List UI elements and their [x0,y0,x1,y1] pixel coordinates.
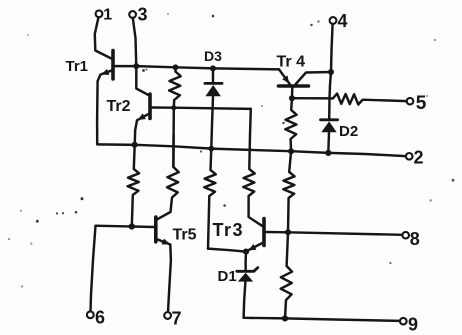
junction: Tr1 base / terminal 3 node [133,63,139,69]
wire: terminal 4 lead down to Tr4 collector node [331,24,333,72]
svg-text:Tr 4: Tr 4 [277,53,306,70]
resistor R5 (Tr2 base corner down to Tr3 collector) [243,109,262,226]
terminal 8 [402,232,409,239]
junction: Tr4 collector on terminal 4 line [328,69,334,75]
transistor Tr5 (bar) [154,217,158,242]
junction: Tr2 base / R1 bottom [171,105,176,110]
svg-text:9: 9 [408,315,418,335]
resistor R3 (rail down to Tr5 base node) [128,145,140,227]
svg-text:D3: D3 [204,48,222,64]
diode D3 lead from top bus [210,65,216,71]
junction: Tr4 base node [289,95,295,101]
transistor Tr3 (bar) [262,219,266,246]
diode D1 lower lead to bottom rail corner [244,282,246,318]
diode D3 triangle (apex up) [205,85,221,96]
svg-text:7: 7 [172,308,182,328]
transistor Tr2 base lead to corner, then down into R5 [152,108,251,109]
terminal 9 [400,318,407,325]
terminal 6 [87,311,94,318]
resistor R1 (top bus to Tr2 base) [173,64,179,70]
wire: R4 corner to D1 node [208,249,246,252]
junction: R8 bottom on bottom rail [282,315,288,321]
transistor Tr4 base lead down to junction [291,88,294,98]
transistor Tr1 emitter lead with arrow, down left side to rail [97,70,112,144]
wire: terminal 4 line down through D2 [329,72,331,120]
svg-text:5: 5 [416,93,427,114]
wire: terminal 3 line continues down to Tr2 collector [136,66,149,95]
diode D2 lower lead to rail [327,132,330,153]
transistor Tr3 base lead right to junction and terminal 8 wire [266,232,403,235]
diode D1 upper lead [244,252,247,272]
transistor Tr2 (bar) [148,94,152,119]
transistor Tr4 (horizontal bar) [279,84,309,88]
resistor R6 (Tr4 base node down to rail) [285,98,296,151]
resistor R8 (Tr3 base node down to bottom rail) [281,232,292,318]
resistor R7 (rail down to Tr3 base node) [283,151,294,232]
junction: Tr2 emitter on rail [132,142,138,148]
diode D1 triangle (apex up) [238,273,253,282]
svg-text:1: 1 [103,7,112,24]
resistor R4 (rail down to D1 corner wire) [204,149,216,249]
svg-text:3: 3 [138,4,148,24]
wire: bottom rail to terminal 9 [244,318,400,321]
diode D1 cathode bar with zener tail [237,268,258,272]
junction: D2 on rail [325,150,331,156]
terminal 4 [330,17,337,24]
junction: R6/R7 on rail [288,148,294,154]
resistor R9 (horizontal, to terminal 5) [333,94,407,105]
svg-text:D2: D2 [339,123,358,140]
transistor Tr3 emitter lead with arrow to D1 node [247,243,262,251]
diode D2 triangle (apex up) [321,121,336,132]
junction: Tr3 emitter / D1 top [243,249,249,255]
wire: terminal 1 lead down to Tr1 collector [95,17,112,58]
svg-text:Tr1: Tr1 [66,58,89,75]
transistor Tr1 (bar) [111,51,115,80]
svg-text:6: 6 [95,307,105,327]
svg-text:D1: D1 [218,268,237,285]
terminal 5 [407,98,414,105]
scan noise specks (decorative) [212,15,215,18]
wire: Tr4 base node right to resistor R9 [292,97,333,100]
svg-text:2: 2 [414,148,424,168]
transistor Tr1 base lead [114,65,136,67]
transistor Tr5 emitter lead with arrow, down to terminal 7 [157,239,171,311]
resistor R2 (Tr2 base junction down to Tr5 collector) [157,108,179,220]
wire: terminal 3 lead down to Tr1 base junction [133,18,137,66]
svg-text:8: 8 [410,229,420,249]
transistor Tr4 emitter (from top bus, arrow toward bar) [279,69,290,84]
transistor Tr5 base lead left to corner, down to terminal 6 [91,226,155,312]
svg-text:Tr5: Tr5 [173,226,197,243]
terminal 1 [96,10,103,17]
junction: R3 bottom on Tr5 base wire [129,223,135,229]
terminal 2 [406,153,413,160]
transistor Tr2 emitter lead with arrow down to rail [135,114,149,145]
junction: D3/R4 on rail [208,146,214,152]
terminal 7 [164,312,171,319]
diode D3 lower lead down to rail [211,96,213,148]
svg-text:4: 4 [338,11,348,31]
diode D2 cathode bar [321,118,338,121]
wire: emitter rail from Tr1 emitter to terminal 2 [97,144,405,156]
terminal 3 [129,11,136,18]
svg-text:Tr2: Tr2 [107,98,131,115]
junction: Tr3 base / R7 bottom [285,229,291,235]
transistor Tr4 collector lead to node [296,72,332,84]
wire: top bus from Tr1 base node to Tr4 emitter [136,66,279,69]
svg-text:Tr3: Tr3 [213,220,245,240]
diode D3 cathode bar [205,82,222,85]
